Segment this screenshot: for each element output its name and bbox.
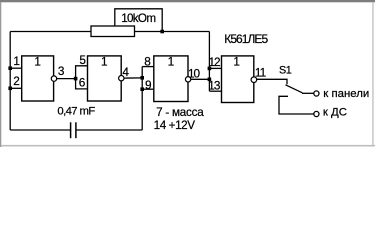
svg-text:7 - масса: 7 - масса [156,106,204,119]
wire right vertical up to gate3 inputs [141,67,143,130]
junction node pin1 [8,66,12,70]
svg-text:9: 9 [145,78,152,92]
svg-text:S1: S1 [279,64,292,76]
gate U1.2 output bubble [119,76,124,81]
wire gate2 input tie [76,66,88,89]
svg-text:1: 1 [101,54,108,68]
svg-text:11: 11 [255,66,266,80]
wire gate4 pin12 stub [209,67,221,69]
wire arm to terminal 1 [302,92,314,94]
wire gate2 output [124,77,142,79]
wire bottom to capacitor [10,129,70,131]
terminal circle k paneli [314,91,319,96]
svg-text:12: 12 [209,55,221,69]
resistor label callout box [115,9,162,32]
wire gate3 output [191,78,210,80]
page border right [372,2,374,145]
wire resistor to gate4 feed [135,31,210,33]
svg-text:2: 2 [13,74,20,88]
svg-text:К561ЛЕ5: К561ЛЕ5 [224,32,268,46]
svg-text:10kOm: 10kOm [121,12,155,25]
wire gate4 feed vertical [208,32,210,92]
svg-text:1: 1 [34,54,41,68]
page border bottom [1,145,375,147]
svg-text:к ДС: к ДС [323,107,347,119]
wire gate3 pin8 stub [142,66,154,68]
svg-text:14 +12V: 14 +12V [154,119,196,132]
svg-text:3: 3 [58,64,65,78]
svg-text:4: 4 [122,65,129,79]
resistor R1 body [91,26,135,37]
wire gate4 output to switch pivot [257,79,287,84]
page border left [0,2,1,147]
svg-text:1: 1 [13,54,20,68]
wire capacitor to right vertical [76,129,142,131]
gate U1.1 output bubble [51,76,56,81]
svg-text:10: 10 [188,66,201,80]
wire left vertical [9,32,11,131]
wire gate3 pin9 stub [142,88,154,90]
junction node A [74,77,78,81]
junction node C [208,78,212,82]
junction node C2 [208,67,212,71]
svg-text:0,47 mF: 0,47 mF [57,105,95,117]
gate U1.3 output bubble [185,77,190,82]
junction dot label box / wire [160,30,164,34]
pin 2 stub [10,87,22,89]
pin 1 stub [10,67,22,69]
junction node B [140,76,144,80]
wire gate1 output [56,78,75,80]
terminal circle k DS [314,111,319,116]
gate U1.3 box [154,56,188,102]
svg-text:к панели: к панели [323,88,369,100]
wire gate4 pin13 stub [209,90,221,92]
svg-text:13: 13 [208,79,221,93]
switch second contact wire [279,96,314,114]
junction node B2 [140,87,144,91]
svg-text:8: 8 [144,54,151,68]
capacitor C1 plates [71,122,76,138]
svg-text:6: 6 [79,76,86,90]
svg-text:1: 1 [233,54,240,68]
gate U1.1 box [22,56,54,101]
gate U1.4 box [222,56,254,103]
gate U1.2 box [88,56,122,101]
switch S1 arm [286,85,303,93]
gate U1.4 output bubble [251,77,257,83]
wire top horizontal left of resistor [10,31,91,33]
page border top [0,0,375,2]
svg-text:1: 1 [168,54,175,68]
svg-text:5: 5 [79,53,86,67]
junction node pin2 [8,87,12,91]
